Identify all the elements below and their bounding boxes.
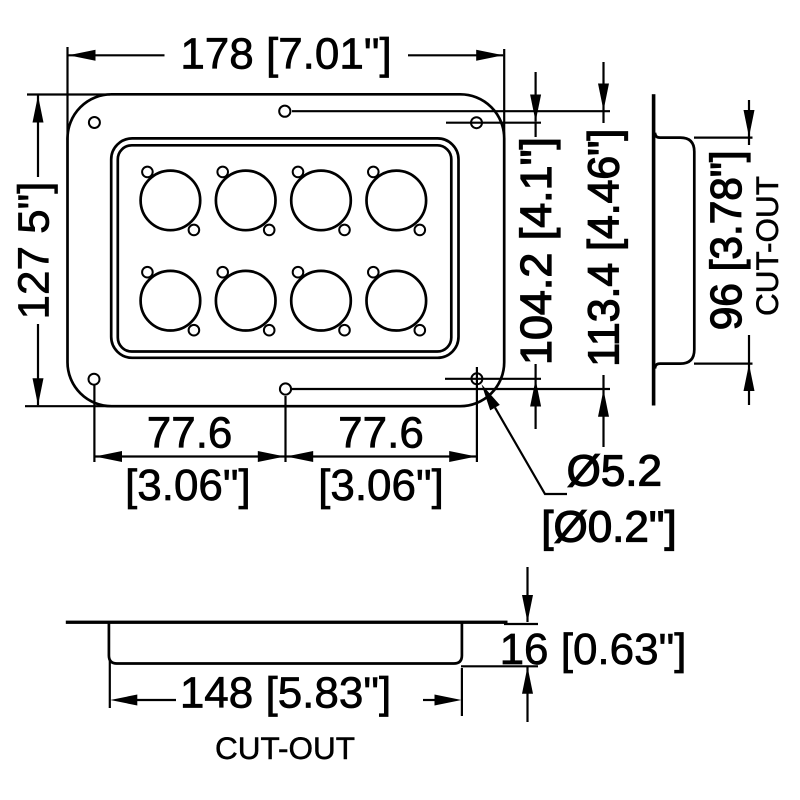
mounting hole bottom-center [280, 383, 291, 394]
dimension 104.2 [4.1"] (corner hole spacing) [512, 72, 561, 429]
dish recess inner edge [118, 145, 452, 351]
connector hole D4 [367, 167, 427, 236]
connector hole D7 [291, 267, 351, 336]
mounting hole bottom-right (datum, with crosshair) [445, 367, 541, 462]
connector hole D6 [216, 267, 276, 336]
connector hole D2 [216, 167, 276, 236]
label CUT-OUT (bottom view) [215, 730, 355, 766]
svg-text:96 [3.78"]: 96 [3.78"] [702, 150, 751, 330]
svg-text:[3.06"]: [3.06"] [318, 461, 444, 510]
svg-text:127 5"]: 127 5"] [10, 182, 59, 320]
connector hole D8 [367, 267, 427, 336]
svg-text:104.2 [4.1"]: 104.2 [4.1"] [512, 137, 561, 365]
svg-text:CUT-OUT: CUT-OUT [215, 730, 355, 766]
svg-text:77.6: 77.6 [338, 409, 424, 458]
dimension 148 [5.83"] (bottom cut-out width) [110, 669, 461, 718]
dimension 16 [0.63"] (dish depth) [500, 567, 687, 722]
bottom view dish profile [109, 623, 462, 664]
extension lines for 77.6 dimensions [94, 385, 285, 462]
svg-text:77.6: 77.6 [147, 409, 233, 458]
svg-text:178 [7.01"]: 178 [7.01"] [180, 30, 391, 79]
svg-text:[Ø0.2"]: [Ø0.2"] [541, 503, 676, 552]
connector hole D3 [291, 167, 351, 236]
mounting hole bottom-left [89, 374, 100, 385]
connector hole D5 [141, 267, 201, 336]
mounting hole top-center [279, 106, 290, 117]
dimension 77.6 [3.06"] left [95, 409, 285, 511]
svg-text:16 [0.63"]: 16 [0.63"] [500, 625, 687, 674]
svg-text:113.4 [4.46"]: 113.4 [4.46"] [580, 129, 629, 367]
dish recess outer edge [111, 138, 458, 357]
plate outline (front view) [68, 94, 505, 406]
mounting hole top-left [89, 117, 100, 128]
label CUT-OUT (side view) [749, 176, 785, 316]
bottom view plate (edge-on) [66, 621, 508, 624]
svg-text:Ø5.2: Ø5.2 [567, 447, 662, 496]
svg-text:148 [5.83"]: 148 [5.83"] [180, 669, 391, 718]
extension line from top-center hole [292, 110, 610, 112]
dimension 96 [3.78"] (side cut-out height) [702, 100, 755, 405]
extension lines of plate edges [25, 47, 504, 406]
connector hole D1 [141, 167, 201, 236]
extension line from bottom-center hole [292, 388, 610, 390]
dimension 113.4 [4.46"] (center hole spacing) [580, 62, 629, 447]
side view extension lines [694, 138, 753, 364]
side view dish profile [655, 133, 694, 369]
extension stubs for 16 dimension [461, 624, 538, 666]
mounting hole top-right [471, 117, 482, 128]
svg-text:CUT-OUT: CUT-OUT [749, 176, 785, 316]
bottom view extension lines for 148 [110, 660, 462, 716]
dimension 127 [5"] (left height) [10, 96, 59, 406]
extension line from top-right hole [446, 122, 541, 124]
leader and label Ø5.2 [Ø0.2"] [482, 384, 677, 551]
dimension 178 [7.01"] (top width) [69, 30, 504, 79]
dimension 77.6 [3.06"] right [286, 409, 476, 511]
svg-text:[3.06"]: [3.06"] [125, 461, 251, 510]
side view plate (edge-on) [652, 94, 656, 405]
